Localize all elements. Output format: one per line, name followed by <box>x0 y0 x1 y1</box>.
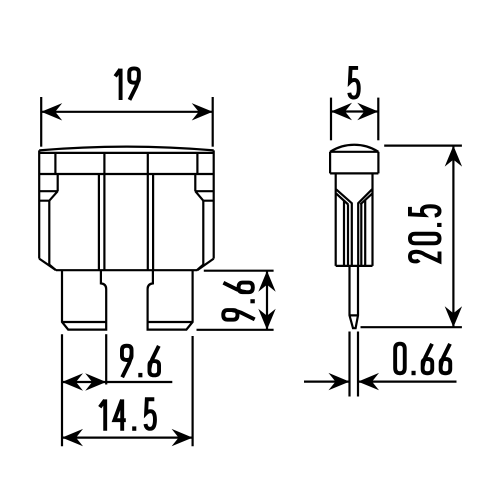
dim 9.6 bottom: left arrowhead <box>62 373 83 390</box>
fuse side: rib line D <box>364 200 366 266</box>
fuse front: cap band corner divider left <box>54 153 56 174</box>
dim 0.66: label "0.66" <box>395 344 450 376</box>
dim 0.66: left extension line <box>348 332 350 397</box>
fuse side: rib line B <box>347 204 349 266</box>
fuse front: groove line 2 <box>103 174 105 270</box>
dim 9.6 bottom: label "9.6" <box>122 346 159 378</box>
dim 9.6 right: bottom extension line <box>197 329 274 331</box>
fuse front: left inner edge <box>49 201 56 271</box>
dim 19: right extension line <box>212 97 214 147</box>
dim 9.6 right: top extension line <box>204 270 274 272</box>
dim 5: right extension line <box>377 98 379 141</box>
dim 9.6 bottom: left extension line (shared with 14.5) <box>61 334 63 446</box>
fuse side: funnel left diagonal <box>336 189 352 266</box>
fuse front: cap band divider right-center <box>147 153 149 174</box>
dim 9.6 bottom: right extension line <box>105 334 107 384</box>
dim 19: label "19" <box>115 68 139 100</box>
left blade terminal <box>62 270 106 329</box>
fuse side: body outline <box>336 173 373 266</box>
fuse front: cap band bottom line <box>39 173 214 175</box>
dim 0.66: right leader line <box>358 381 457 383</box>
fuse side: rib line A <box>343 201 345 266</box>
side blade <box>350 266 359 328</box>
dim 5: right arrowhead <box>357 103 378 120</box>
fuse front: groove line 1 <box>98 174 100 270</box>
fuse side: rib line C <box>360 204 362 266</box>
dim 19: dimension line <box>41 111 213 113</box>
dim 9.6 right: dimension line <box>266 271 268 330</box>
dim 5: left arrowhead <box>331 103 352 120</box>
fuse front: groove line 3 <box>147 174 149 270</box>
dim 9.6 right: bottom arrowhead <box>258 309 275 330</box>
dim 14.5: dimension line <box>62 437 193 439</box>
dim 0.66: right arrowhead (pointing left) <box>358 373 379 390</box>
dim 0.66: left arrowhead (pointing right) <box>329 373 350 390</box>
fuse front: left outer edge <box>38 150 40 258</box>
dim 19: right arrowhead <box>192 103 213 120</box>
dim 5: dimension line <box>331 110 378 112</box>
dim 19: left extension line <box>40 97 42 147</box>
fuse front: top face line <box>39 152 214 154</box>
dim 20.5: top extension line <box>384 145 462 147</box>
dim 20.5: label "20.5" rotated <box>410 206 442 261</box>
fuse front: dome top arc <box>39 147 214 151</box>
dim 14.5: right arrowhead <box>172 429 193 446</box>
fuse side: funnel right diagonal <box>358 189 372 266</box>
dim 9.6 right: top arrowhead <box>258 271 275 292</box>
dim 20.5: bottom extension line <box>361 326 462 328</box>
fuse side: right rib diagonal <box>360 194 372 205</box>
fuse side: left rib diagonal <box>336 194 348 205</box>
fuse front: right outer edge <box>213 150 215 258</box>
fuse side: cap body <box>330 152 378 174</box>
fuse front: right inner edge <box>197 201 203 271</box>
dim 14.5: label "14.5" <box>100 399 155 431</box>
dim 0.66: left leader line <box>304 381 350 383</box>
dim 14.5: right extension line <box>192 336 194 446</box>
dim 9.6 bottom: dimension line <box>62 381 172 383</box>
fuse side: cap top face line <box>330 151 378 153</box>
dim 20.5: bottom arrowhead <box>445 306 462 327</box>
fuse front: cap band corner divider right <box>196 153 198 174</box>
dim 20.5: top arrowhead <box>445 146 462 167</box>
fuse front: groove line 4 <box>152 174 154 270</box>
dim 14.5: left arrowhead <box>62 429 83 446</box>
dim 9.6 right: label "9.6" rotated <box>223 283 255 320</box>
dim 5: label "5" <box>349 68 358 98</box>
fuse front: base bottom line <box>56 269 197 271</box>
fuse front: bottom chamfer right <box>197 259 213 271</box>
dim 9.6 bottom: right arrowhead <box>85 373 106 390</box>
fuse front: left shoulder box <box>39 174 58 201</box>
dim 0.66: right extension line <box>357 332 359 397</box>
right blade terminal <box>148 270 193 329</box>
fuse side: cap dome arc <box>330 145 378 152</box>
dim 19: left arrowhead <box>41 103 62 120</box>
dim 5: left extension line <box>330 98 332 141</box>
fuse front: bottom chamfer left <box>39 259 56 271</box>
fuse front: right shoulder box <box>195 174 213 201</box>
fuse front: cap band divider left-center <box>103 153 105 174</box>
dim 20.5: dimension line <box>452 146 454 328</box>
